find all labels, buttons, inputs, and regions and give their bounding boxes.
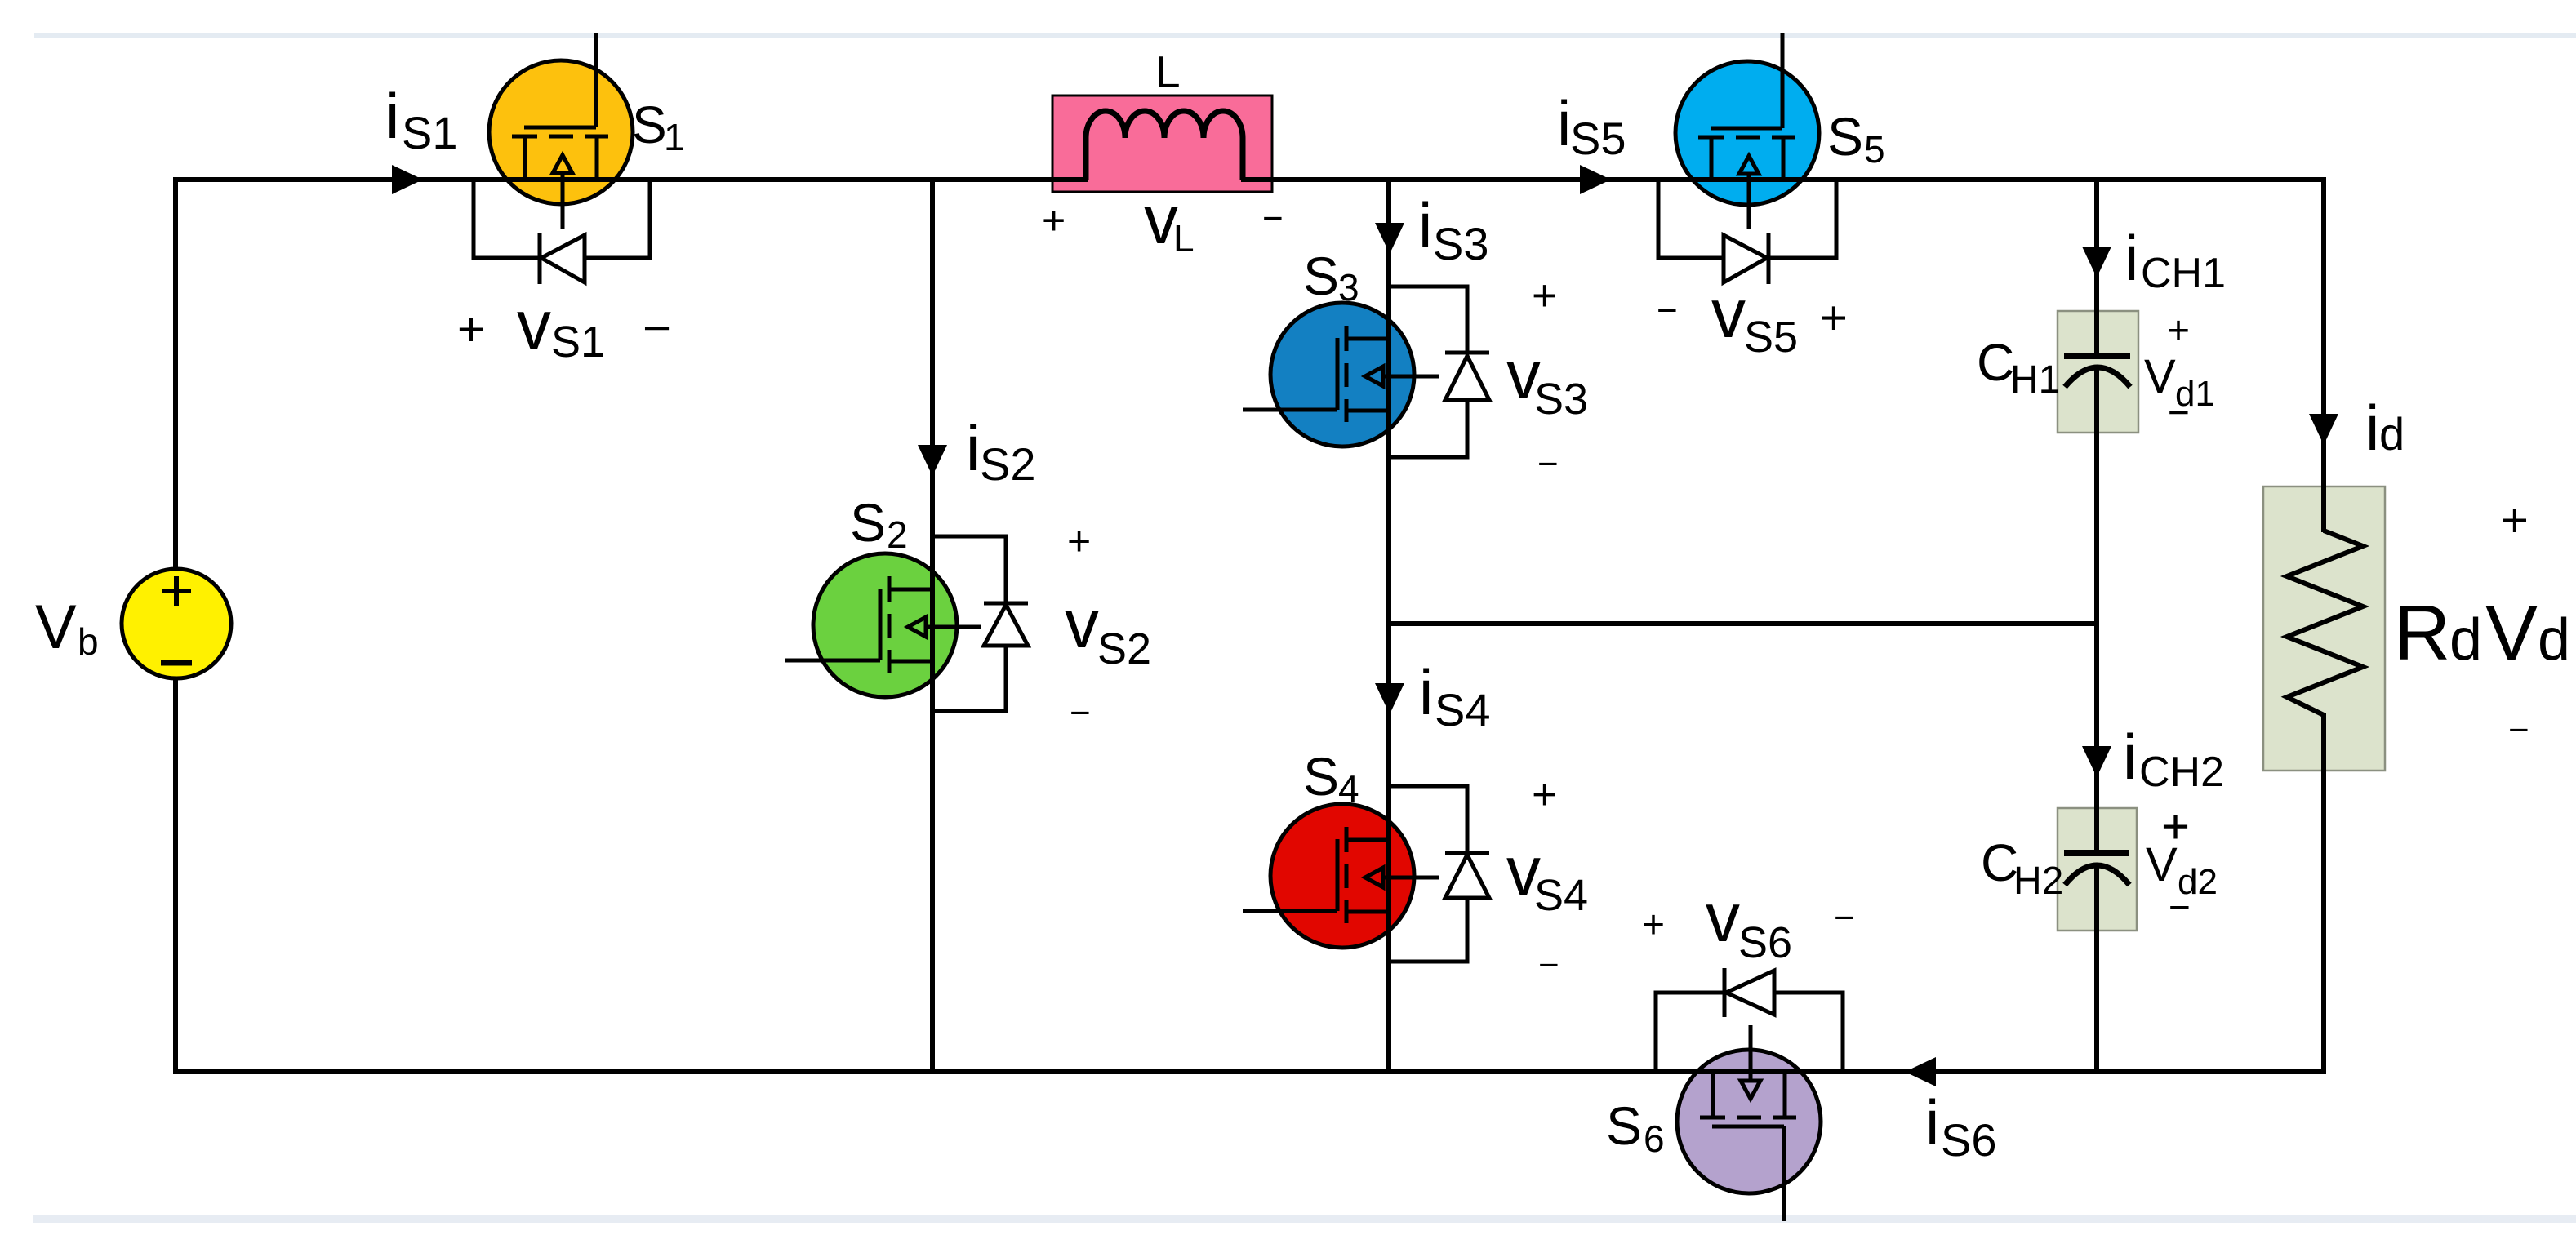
svg-text:L: L	[1173, 217, 1195, 260]
transistor S3	[1243, 303, 1439, 447]
diode D3 of S3	[1389, 287, 1489, 457]
label S6	[1606, 1095, 1665, 1160]
svg-text:S: S	[632, 96, 667, 154]
label Rd	[2394, 589, 2482, 677]
svg-text:i: i	[2123, 721, 2137, 793]
svg-text:S6: S6	[1941, 1114, 1997, 1166]
svg-text:−: −	[1657, 291, 1678, 331]
svg-text:S2: S2	[980, 438, 1036, 490]
wire Rd branch upper	[2321, 177, 2326, 531]
arrow iS3	[1375, 223, 1404, 254]
svg-text:1: 1	[664, 116, 685, 158]
svg-text:6: 6	[1644, 1117, 1665, 1160]
label iS2	[966, 412, 1036, 490]
transistor S4	[1243, 804, 1439, 948]
label + Vd1 -	[2144, 309, 2215, 433]
svg-text:CH1: CH1	[2141, 250, 2226, 297]
svg-text:S: S	[1303, 246, 1339, 306]
svg-text:−: −	[2169, 886, 2191, 928]
source Vb	[122, 569, 231, 678]
svg-text:S4: S4	[1534, 871, 1588, 920]
label - vS5 +	[1657, 275, 1848, 362]
svg-text:C: C	[1977, 333, 2014, 392]
svg-text:i: i	[966, 412, 980, 484]
svg-text:+: +	[2501, 494, 2529, 547]
svg-text:v: v	[1711, 275, 1746, 352]
svg-text:−: −	[1538, 945, 1559, 985]
diode D1 of S1	[474, 180, 650, 284]
svg-text:d: d	[2379, 408, 2405, 460]
arrow iCH2	[2082, 746, 2111, 777]
wire through S6	[1675, 1069, 1822, 1074]
label S3	[1303, 246, 1359, 309]
wire through S5	[1674, 177, 1821, 182]
capacitor CH2	[2058, 806, 2137, 932]
top page band	[34, 33, 2576, 38]
transistor S6	[1677, 1025, 1821, 1221]
transistor S2	[785, 553, 981, 697]
label + vS2 -	[1065, 518, 1151, 733]
capacitor CH1	[2058, 309, 2138, 434]
wire S2 branch	[930, 180, 935, 1072]
arrow iS1	[392, 165, 423, 194]
svg-text:S1: S1	[402, 107, 458, 158]
wire top bus	[176, 177, 2325, 182]
label Vb	[35, 593, 99, 663]
svg-text:i: i	[1925, 1086, 1939, 1158]
svg-text:S: S	[1606, 1095, 1642, 1156]
svg-text:S: S	[850, 492, 886, 553]
wire through S3	[1386, 300, 1391, 449]
svg-text:+: +	[1820, 291, 1848, 344]
svg-text:S3: S3	[1433, 218, 1489, 269]
svg-text:i: i	[385, 80, 399, 152]
label CH2	[1981, 833, 2063, 903]
wire S3 S4 branch	[1386, 180, 1391, 1072]
svg-text:−: −	[2168, 391, 2190, 433]
inductor L	[1051, 96, 1274, 192]
svg-text:v: v	[1065, 585, 1099, 662]
svg-text:−: −	[2508, 710, 2529, 750]
diode D4 of S4	[1389, 786, 1489, 962]
svg-text:i: i	[1419, 656, 1433, 728]
label S4	[1303, 746, 1359, 810]
svg-text:−: −	[1537, 444, 1559, 484]
arrow iCH1	[2082, 247, 2111, 278]
bottom page band	[33, 1215, 2576, 1223]
resistor Rd	[2263, 485, 2385, 777]
diode D5 of S5	[1658, 180, 1836, 284]
label + vS4 -	[1506, 770, 1588, 985]
svg-text:+: +	[1532, 770, 1558, 819]
label + vS1 -	[457, 287, 671, 367]
svg-text:v: v	[1706, 879, 1740, 956]
svg-text:+: +	[1067, 518, 1091, 564]
label iCH2	[2123, 721, 2224, 796]
svg-text:−: −	[1262, 198, 1284, 238]
transistor S5	[1675, 33, 1819, 229]
svg-text:V: V	[2485, 589, 2538, 677]
label id	[2365, 392, 2405, 464]
svg-text:b: b	[78, 620, 99, 663]
svg-text:S4: S4	[1435, 684, 1491, 735]
arrow iS4	[1375, 683, 1404, 714]
label iS1	[385, 80, 458, 158]
wire bottom bus	[176, 1069, 2325, 1074]
wire through S2	[930, 552, 935, 699]
label + Vd2 -	[2146, 799, 2218, 928]
svg-text:−: −	[1834, 898, 1855, 938]
wire through S4	[1386, 802, 1391, 950]
diode D6 of S6	[1656, 968, 1843, 1072]
svg-text:H2: H2	[2013, 860, 2063, 903]
svg-text:L: L	[1155, 47, 1181, 97]
svg-text:i: i	[2365, 392, 2379, 464]
label iS6	[1925, 1086, 1997, 1166]
diode D2 of S2	[932, 536, 1028, 711]
svg-text:+: +	[1642, 904, 1665, 947]
svg-text:V: V	[2146, 838, 2178, 891]
svg-text:S6: S6	[1738, 918, 1792, 967]
wire capacitor branch middle	[2094, 368, 2099, 853]
svg-text:H1: H1	[2010, 358, 2060, 402]
svg-text:d: d	[2538, 607, 2570, 673]
svg-text:5: 5	[1864, 128, 1885, 171]
svg-text:i: i	[1557, 87, 1571, 159]
transistor S1	[489, 33, 633, 229]
label + vS6 -	[1642, 879, 1855, 967]
wire capacitor branch lower	[2094, 865, 2099, 1072]
label S2	[850, 492, 908, 556]
svg-text:4: 4	[1338, 767, 1359, 810]
svg-text:S: S	[1303, 746, 1339, 806]
svg-text:3: 3	[1338, 266, 1359, 309]
label + vL -	[1042, 181, 1284, 260]
wire middle link	[1389, 621, 2097, 626]
svg-text:S2: S2	[1097, 624, 1151, 673]
label iS5	[1557, 87, 1626, 164]
svg-text:+: +	[1532, 271, 1558, 320]
svg-text:V: V	[35, 593, 77, 662]
label Vd	[2485, 589, 2570, 677]
wire left branch upper	[173, 177, 178, 569]
svg-text:i: i	[2124, 222, 2138, 294]
svg-text:S1: S1	[551, 318, 605, 367]
svg-text:+: +	[457, 303, 485, 356]
wire through S1	[488, 177, 634, 182]
arrow iS2	[918, 445, 947, 476]
label iS3	[1418, 189, 1489, 269]
svg-text:2: 2	[887, 513, 908, 556]
label CH1	[1977, 333, 2060, 402]
label iS4	[1419, 656, 1491, 735]
svg-text:CH2: CH2	[2139, 749, 2224, 796]
svg-text:+: +	[2167, 309, 2190, 353]
svg-text:v: v	[517, 287, 551, 363]
label S5	[1827, 106, 1885, 171]
label S1	[632, 96, 685, 158]
svg-text:S3: S3	[1534, 375, 1588, 424]
wire Rd branch lower	[2321, 715, 2326, 1074]
svg-text:S5: S5	[1570, 113, 1626, 164]
svg-text:S5: S5	[1744, 313, 1798, 362]
label iCH1	[2124, 222, 2226, 297]
wire left branch lower	[173, 678, 178, 1074]
arrow id	[2309, 414, 2338, 445]
svg-text:R: R	[2394, 589, 2450, 677]
wire capacitor branch upper	[2094, 180, 2099, 356]
svg-text:S: S	[1827, 106, 1863, 167]
svg-text:−: −	[1070, 693, 1091, 733]
svg-text:i: i	[1418, 189, 1432, 261]
svg-text:d: d	[2449, 607, 2482, 673]
svg-text:+: +	[1042, 198, 1066, 243]
arrow iS6	[1905, 1057, 1936, 1086]
arrow iS5	[1580, 165, 1611, 194]
label + vS3 -	[1506, 271, 1588, 484]
svg-text:−: −	[643, 300, 671, 355]
